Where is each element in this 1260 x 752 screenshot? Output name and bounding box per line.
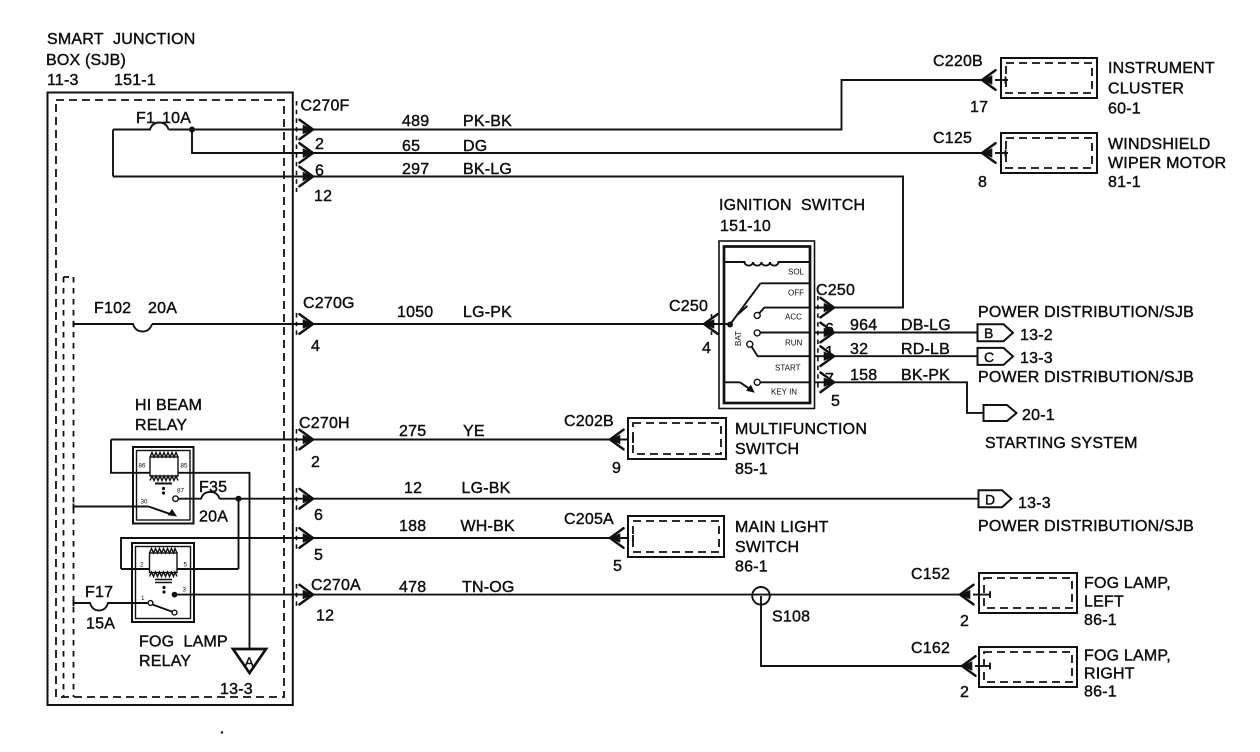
wire 65 label bbox=[402, 138, 487, 155]
svg-text:5: 5 bbox=[831, 393, 840, 410]
wire 158 BK-PK bbox=[814, 382, 984, 413]
flag 20-1 starting system bbox=[984, 405, 1017, 421]
SJB title text bbox=[46, 31, 195, 89]
flag B 13-2 bbox=[978, 324, 1014, 341]
svg-text:BK-LG: BK-LG bbox=[463, 161, 512, 178]
connector C270F pin 2 arrow bbox=[300, 120, 314, 140]
connector C250 ACC arrow bbox=[821, 298, 835, 318]
connector SJB pin 6 arrow bbox=[300, 489, 314, 509]
svg-text:S108: S108 bbox=[772, 609, 810, 626]
svg-text:8: 8 bbox=[978, 174, 987, 191]
svg-text:STARTING SYSTEM: STARTING SYSTEM bbox=[985, 435, 1138, 452]
svg-text:151-1: 151-1 bbox=[114, 72, 156, 89]
svg-text:RELAY: RELAY bbox=[135, 417, 187, 434]
fog lamp relay K2 bbox=[132, 543, 194, 622]
svg-text:2: 2 bbox=[311, 454, 320, 471]
svg-text:RD-LB: RD-LB bbox=[901, 341, 950, 358]
svg-text:13-3: 13-3 bbox=[1018, 495, 1051, 512]
node F35 output junction bbox=[236, 496, 242, 502]
connector SJB pin 5 arrow bbox=[300, 528, 314, 548]
svg-text:FOG LAMP,: FOG LAMP, bbox=[1084, 648, 1171, 665]
svg-text:F17: F17 bbox=[85, 584, 113, 601]
connector C125 arrow bbox=[982, 143, 996, 163]
wire 32 RD-LB bbox=[814, 355, 978, 357]
svg-text:13-3: 13-3 bbox=[1020, 350, 1053, 367]
wire hi-beam coil to ground line bbox=[178, 473, 250, 649]
svg-text:11-3: 11-3 bbox=[47, 72, 79, 89]
svg-text:5: 5 bbox=[613, 558, 622, 575]
svg-text:15A: 15A bbox=[86, 616, 115, 633]
svg-text:C250: C250 bbox=[669, 298, 708, 315]
svg-text:POWER DISTRIBUTION/SJB: POWER DISTRIBUTION/SJB bbox=[978, 369, 1194, 386]
wire 478 TN-OG bbox=[175, 594, 961, 596]
svg-text:SWITCH: SWITCH bbox=[735, 539, 799, 556]
svg-text:13-3: 13-3 bbox=[220, 681, 253, 698]
connector C270F dashed line bbox=[296, 101, 298, 192]
svg-text:SMART JUNCTION: SMART JUNCTION bbox=[47, 31, 195, 48]
connector C270H dashed line bbox=[296, 429, 298, 451]
svg-text:RIGHT: RIGHT bbox=[1084, 666, 1135, 683]
svg-text:CLUSTER: CLUSTER bbox=[1108, 81, 1184, 98]
svg-text:C162: C162 bbox=[911, 640, 950, 657]
svg-text:10A: 10A bbox=[162, 110, 191, 127]
svg-text:60-1: 60-1 bbox=[1108, 101, 1141, 118]
svg-text:20A: 20A bbox=[199, 509, 228, 526]
ignition switch arm bbox=[730, 283, 761, 324]
svg-text:POWER DISTRIBUTION/SJB: POWER DISTRIBUTION/SJB bbox=[978, 518, 1194, 535]
svg-text:WINDSHIELD: WINDSHIELD bbox=[1108, 136, 1210, 153]
connector C205A arrow bbox=[610, 528, 624, 548]
svg-text:20-1: 20-1 bbox=[1022, 407, 1055, 424]
svg-text:12: 12 bbox=[316, 608, 334, 625]
svg-text:32: 32 bbox=[850, 341, 868, 358]
svg-text:86: 86 bbox=[139, 463, 147, 470]
svg-text:297: 297 bbox=[402, 161, 429, 178]
svg-text:1: 1 bbox=[825, 344, 834, 361]
svg-text:1: 1 bbox=[141, 595, 145, 602]
connector C250 pin 1 arrow bbox=[821, 346, 835, 366]
ignition ACC contact bbox=[754, 308, 810, 319]
svg-text:IGNITION SWITCH: IGNITION SWITCH bbox=[719, 197, 865, 214]
connector C270F pin 6 arrow bbox=[300, 143, 314, 163]
ignition RUN contact bbox=[754, 330, 810, 336]
wire 275 YE bbox=[111, 439, 628, 441]
fog lamp right box bbox=[975, 647, 1077, 687]
wire hi-beam relay 30 input bbox=[74, 504, 149, 510]
svg-text:12: 12 bbox=[314, 188, 332, 205]
svg-text:964: 964 bbox=[850, 317, 877, 334]
wire 478 label bbox=[399, 579, 515, 596]
svg-text:F102: F102 bbox=[94, 300, 131, 317]
svg-text:F35: F35 bbox=[199, 479, 227, 496]
svg-text:BOX (SJB): BOX (SJB) bbox=[46, 52, 126, 69]
svg-text:188: 188 bbox=[399, 518, 426, 535]
wire 964 label bbox=[850, 317, 951, 334]
multifunction switch box bbox=[628, 418, 726, 459]
svg-text:87: 87 bbox=[177, 488, 185, 495]
svg-text:4: 4 bbox=[702, 340, 711, 357]
ignition KEY-IN contact bbox=[724, 379, 810, 393]
fog lamp left box bbox=[973, 573, 1077, 613]
svg-text:2: 2 bbox=[315, 136, 324, 153]
fuse F1 10A bbox=[113, 110, 191, 130]
svg-text:POWER DISTRIBUTION/SJB: POWER DISTRIBUTION/SJB bbox=[978, 304, 1194, 321]
ignition switch coil bbox=[724, 262, 810, 266]
svg-text:START: START bbox=[775, 364, 801, 373]
svg-text:HI BEAM: HI BEAM bbox=[135, 397, 202, 414]
svg-text:MAIN LIGHT: MAIN LIGHT bbox=[735, 519, 829, 536]
wire 297 BK-LG bbox=[113, 177, 903, 308]
svg-text:TN-OG: TN-OG bbox=[462, 579, 515, 596]
svg-text:SWITCH: SWITCH bbox=[735, 441, 799, 458]
svg-text:OFF: OFF bbox=[788, 289, 804, 298]
connector C250 pin 6 arrow bbox=[821, 323, 835, 343]
connector C270G dashed line bbox=[296, 313, 298, 336]
svg-text:7: 7 bbox=[825, 371, 834, 388]
connector C220B arrow bbox=[982, 70, 996, 90]
wire 275 label bbox=[399, 423, 485, 440]
connector SJB pin 6 dashed line bbox=[296, 488, 298, 510]
svg-text:C125: C125 bbox=[933, 130, 972, 147]
svg-text:5: 5 bbox=[184, 562, 188, 569]
svg-text:275: 275 bbox=[399, 423, 426, 440]
ignition OFF terminal line bbox=[761, 282, 811, 284]
svg-text:86-1: 86-1 bbox=[1084, 684, 1117, 701]
svg-text:1050: 1050 bbox=[397, 304, 433, 321]
fuse F102 20A bbox=[74, 300, 178, 332]
svg-text:2: 2 bbox=[140, 562, 144, 569]
smart junction box SJB outer box bbox=[48, 93, 293, 706]
connector C202B arrow bbox=[610, 430, 624, 450]
hi beam relay K1 bbox=[133, 397, 202, 524]
svg-text:LG-PK: LG-PK bbox=[463, 304, 512, 321]
connector C152 arrow bbox=[960, 585, 974, 605]
node C250 pin4 junction bbox=[727, 322, 733, 328]
wire hi-beam coil feed bbox=[111, 440, 150, 473]
wire fog coil right bbox=[177, 568, 239, 570]
svg-text:ACC: ACC bbox=[785, 313, 802, 322]
svg-text:C220B: C220B bbox=[933, 53, 983, 70]
svg-text:85-1: 85-1 bbox=[735, 461, 768, 478]
svg-text:C205A: C205A bbox=[564, 511, 614, 528]
wire 297 return to switch bbox=[814, 307, 903, 309]
flag C 13-3 bbox=[978, 348, 1014, 365]
wire F1 feed vertical bbox=[112, 130, 114, 177]
smart junction box inner dashed outline bbox=[56, 100, 284, 697]
C250 right pin labels bbox=[825, 321, 840, 410]
splice S108 bbox=[752, 587, 810, 626]
svg-text:RUN: RUN bbox=[785, 339, 803, 348]
scan artifact bottom tick bbox=[221, 731, 223, 733]
connector C250 right dashed line bbox=[817, 296, 819, 390]
svg-text:FOG LAMP,: FOG LAMP, bbox=[1084, 575, 1171, 592]
svg-text:86-1: 86-1 bbox=[735, 559, 768, 576]
wire 12 LG-BK bbox=[220, 498, 979, 500]
svg-text:PK-BK: PK-BK bbox=[463, 113, 512, 130]
connector C162 arrow bbox=[962, 656, 976, 676]
connector C270H pin 2 arrow bbox=[300, 430, 314, 450]
svg-text:DG: DG bbox=[463, 138, 487, 155]
svg-text:6: 6 bbox=[825, 321, 834, 338]
svg-text:LG-BK: LG-BK bbox=[462, 480, 511, 497]
svg-text:85: 85 bbox=[181, 463, 189, 470]
svg-text:13-2: 13-2 bbox=[1020, 327, 1053, 344]
connector C270G pin 4 arrow bbox=[300, 314, 314, 334]
svg-text:WH-BK: WH-BK bbox=[461, 518, 515, 535]
connector C270F pin 12 arrow bbox=[300, 167, 314, 187]
svg-text:C270A: C270A bbox=[311, 577, 361, 594]
svg-text:C270H: C270H bbox=[299, 415, 350, 432]
wire fog coil left bbox=[121, 568, 150, 570]
connector C270A dashed line bbox=[296, 584, 298, 606]
svg-text:9: 9 bbox=[612, 460, 621, 477]
svg-text:6: 6 bbox=[314, 507, 323, 524]
node F1 output junction bbox=[189, 127, 195, 133]
svg-text:C152: C152 bbox=[911, 566, 950, 583]
svg-text:YE: YE bbox=[463, 423, 485, 440]
connector C270A pin 12 arrow bbox=[300, 585, 314, 605]
SJB internal bus dashed column bbox=[64, 277, 74, 697]
wire 158 label bbox=[850, 367, 950, 384]
svg-text:DB-LG: DB-LG bbox=[901, 317, 951, 334]
svg-text:81-1: 81-1 bbox=[1108, 174, 1141, 191]
svg-text:489: 489 bbox=[402, 113, 429, 130]
wire 1050 label bbox=[397, 304, 512, 321]
svg-text:5: 5 bbox=[314, 547, 323, 564]
svg-text:3: 3 bbox=[183, 587, 187, 594]
svg-text:FOG LAMP: FOG LAMP bbox=[139, 634, 228, 651]
svg-text:86-1: 86-1 bbox=[1084, 612, 1117, 629]
wire 188 label bbox=[399, 518, 515, 535]
svg-text:C: C bbox=[984, 349, 994, 365]
svg-text:KEY IN: KEY IN bbox=[771, 388, 797, 397]
connector C270F labels bbox=[301, 98, 350, 206]
svg-text:2: 2 bbox=[960, 684, 969, 701]
connector C250 pin 7 arrow bbox=[821, 373, 835, 393]
fuse F17 15A bbox=[74, 584, 148, 633]
instrument cluster box bbox=[995, 58, 1097, 98]
wire 188 WH-BK bbox=[121, 538, 628, 569]
svg-text:INSTRUMENT: INSTRUMENT bbox=[1108, 60, 1215, 77]
svg-text:2: 2 bbox=[960, 613, 969, 630]
svg-text:C270F: C270F bbox=[301, 98, 350, 115]
main light switch box bbox=[628, 516, 724, 557]
svg-text:BAT: BAT bbox=[734, 331, 743, 346]
svg-text:BK-PK: BK-PK bbox=[901, 367, 950, 384]
svg-text:LEFT: LEFT bbox=[1084, 594, 1124, 611]
svg-text:12: 12 bbox=[404, 480, 422, 497]
svg-text:B: B bbox=[984, 325, 994, 341]
flag D 13-3 bbox=[979, 490, 1012, 507]
wire 489 label bbox=[402, 113, 512, 130]
svg-text:151-10: 151-10 bbox=[720, 218, 771, 235]
svg-text:17: 17 bbox=[970, 99, 988, 116]
ignition START contact bbox=[747, 341, 810, 356]
svg-text:D: D bbox=[985, 492, 995, 508]
svg-text:20A: 20A bbox=[148, 300, 177, 317]
svg-text:6: 6 bbox=[315, 163, 324, 180]
svg-text:30: 30 bbox=[141, 499, 149, 506]
windshield wiper motor box bbox=[995, 133, 1097, 173]
wire 32 label bbox=[850, 341, 950, 358]
wire F35 to fog relay coil bbox=[238, 499, 240, 569]
ignition switch position labels bbox=[734, 268, 805, 397]
fuse F35 20A bbox=[178, 479, 228, 526]
wire 964 DB-LG bbox=[814, 332, 978, 334]
svg-text:C270G: C270G bbox=[303, 295, 355, 312]
wire S108 to C162 bbox=[761, 596, 962, 666]
svg-text:478: 478 bbox=[399, 579, 426, 596]
connector C250 left arrow bbox=[711, 314, 713, 335]
ground flag A 13-3 bbox=[220, 649, 266, 698]
svg-text:4: 4 bbox=[311, 338, 320, 355]
svg-text:SOL: SOL bbox=[788, 268, 805, 277]
svg-text:158: 158 bbox=[850, 367, 877, 384]
svg-text:A: A bbox=[245, 654, 255, 670]
wire 65 DG bbox=[192, 130, 982, 154]
svg-text:C202B: C202B bbox=[564, 413, 614, 430]
wire 297 label bbox=[402, 161, 512, 178]
svg-text:C250: C250 bbox=[816, 282, 855, 299]
svg-text:WIPER MOTOR: WIPER MOTOR bbox=[1108, 155, 1226, 172]
connector SJB pin 5 dashed line bbox=[296, 527, 298, 549]
wire 489 PK-BK bbox=[169, 80, 983, 130]
svg-text:RELAY: RELAY bbox=[139, 653, 191, 670]
svg-text:65: 65 bbox=[402, 138, 420, 155]
svg-text:F1: F1 bbox=[136, 110, 155, 127]
wire 12 label bbox=[404, 480, 511, 497]
svg-text:MULTIFUNCTION: MULTIFUNCTION bbox=[735, 421, 867, 438]
wire 1050 LG-PK bbox=[152, 323, 730, 325]
ignition switch U1 box bbox=[719, 241, 815, 409]
